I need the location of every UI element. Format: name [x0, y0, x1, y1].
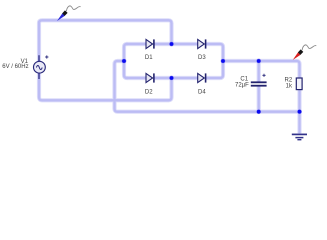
junction node C1 bottom: [256, 109, 261, 114]
wire halo (soft glow under all nets): [39, 20, 300, 133]
junction node bridge right: [221, 59, 226, 64]
capacitor C1 plates: [251, 81, 267, 86]
diode D4: [198, 73, 206, 82]
probe right (red): [293, 45, 317, 60]
svg-text:1k: 1k: [286, 84, 293, 90]
svg-text:6V / 60Hz: 6V / 60Hz: [2, 64, 28, 70]
junction node R2 bottom / ground: [297, 109, 302, 114]
wire V1 bottom to D2/D4 junction: [39, 78, 172, 100]
wire DC- : bridge left node down to bottom rail toward ground: [115, 61, 300, 112]
junction node C1 top: [256, 59, 261, 64]
wire D1 row leads: [126, 43, 198, 45]
voltage source V1: [34, 55, 46, 79]
junction node bottom mid (D2/D4): [169, 76, 174, 81]
diode D3: [198, 39, 206, 48]
svg-text:72µF: 72µF: [235, 82, 249, 88]
wire ground lead: [298, 112, 300, 134]
V1 plus mark: [45, 55, 48, 58]
wire R2 bottom lead: [298, 90, 300, 112]
junction node bridge left: [122, 59, 127, 64]
probe left (blue): [57, 6, 81, 21]
svg-text:D4: D4: [198, 90, 206, 96]
diode D1: [146, 39, 154, 48]
ground: [292, 134, 307, 139]
svg-text:D1: D1: [145, 55, 153, 61]
svg-text:D2: D2: [145, 90, 153, 96]
resistor R2: [296, 78, 302, 90]
wire DC+ rail to R2 top: [223, 61, 300, 78]
wire D2 row leads: [126, 77, 198, 79]
wire bridge left vertical: [124, 44, 128, 78]
diode D2: [146, 73, 154, 82]
wire bridge right vertical with corners from D3/D4: [206, 44, 223, 78]
wire C1 branch: [258, 61, 260, 112]
svg-text:D3: D3: [198, 55, 206, 61]
C1 plus mark: [262, 74, 265, 77]
junction node top mid (D1/D3): [169, 42, 174, 47]
wire top rail from V1 top to bridge top-mid drop: [39, 20, 172, 97]
